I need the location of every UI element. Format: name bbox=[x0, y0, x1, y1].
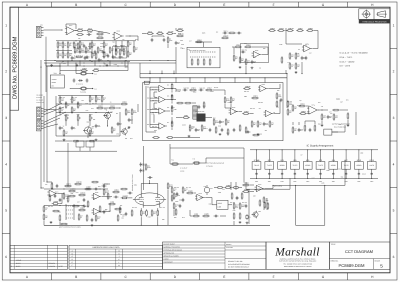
svg-text:470R: 470R bbox=[147, 167, 150, 169]
svg-text:6: 6 bbox=[5, 255, 7, 259]
svg-text:R39: R39 bbox=[181, 44, 184, 46]
svg-text:ISSUE: ISSUE bbox=[16, 259, 22, 262]
svg-text:R66 22k: R66 22k bbox=[258, 102, 263, 104]
svg-text:IC7: IC7 bbox=[167, 122, 169, 124]
svg-text:R55: R55 bbox=[63, 63, 66, 65]
svg-text:E: E bbox=[223, 3, 225, 7]
svg-text:R47: R47 bbox=[103, 66, 106, 68]
svg-text:LM-50k: LM-50k bbox=[180, 170, 185, 172]
svg-text:68n: 68n bbox=[329, 117, 332, 119]
svg-text:R47: R47 bbox=[108, 198, 111, 200]
svg-text:IC5: IC5 bbox=[167, 95, 169, 97]
svg-text:TH4: TH4 bbox=[193, 159, 196, 161]
svg-text:10n: 10n bbox=[86, 58, 89, 60]
svg-text:330k: 330k bbox=[321, 182, 324, 184]
svg-text:330k: 330k bbox=[279, 44, 282, 46]
svg-text:22n: 22n bbox=[61, 128, 64, 130]
svg-text:5: 5 bbox=[11, 265, 12, 268]
svg-text:100k: 100k bbox=[154, 130, 157, 132]
svg-text:68k: 68k bbox=[93, 119, 96, 121]
svg-text:C87: C87 bbox=[76, 192, 79, 194]
svg-text:330k: 330k bbox=[236, 198, 239, 200]
svg-text:C86: C86 bbox=[157, 203, 160, 205]
svg-text:R14 10k: R14 10k bbox=[70, 43, 75, 45]
svg-text:100n: 100n bbox=[345, 181, 348, 183]
svg-text:CLn: CLn bbox=[94, 88, 97, 90]
svg-text:TL072: TL072 bbox=[318, 164, 323, 167]
svg-text:100n: 100n bbox=[293, 181, 296, 183]
svg-text:C52: C52 bbox=[338, 169, 341, 171]
svg-text:470R: 470R bbox=[218, 192, 221, 194]
svg-text:R88: R88 bbox=[162, 219, 165, 221]
svg-text:R103: R103 bbox=[125, 67, 129, 69]
svg-text:68n: 68n bbox=[78, 38, 81, 40]
svg-text:Marshall: Marshall bbox=[274, 246, 320, 258]
svg-text:100n: 100n bbox=[203, 106, 206, 108]
svg-text:UNPROCESSED HOLE DATA: UNPROCESSED HOLE DATA bbox=[92, 246, 120, 249]
svg-text:2k2: 2k2 bbox=[216, 31, 218, 33]
svg-text:470R: 470R bbox=[72, 189, 75, 191]
svg-text:+: + bbox=[266, 115, 267, 117]
svg-text:+: + bbox=[231, 113, 232, 115]
svg-text:100k: 100k bbox=[211, 91, 214, 93]
svg-text:R117: R117 bbox=[247, 189, 250, 191]
svg-text:ISSUE: ISSUE bbox=[375, 260, 381, 263]
svg-text:220n: 220n bbox=[257, 188, 260, 190]
svg-text:TL072: TL072 bbox=[293, 164, 298, 167]
svg-text:R35: R35 bbox=[147, 109, 150, 111]
svg-text:R54: R54 bbox=[94, 198, 97, 200]
svg-text:RT1: RT1 bbox=[52, 85, 55, 87]
svg-text:C22 22n: C22 22n bbox=[200, 87, 206, 89]
svg-text:68n: 68n bbox=[103, 52, 106, 54]
svg-text:2k2: 2k2 bbox=[122, 39, 124, 41]
svg-text:C21: C21 bbox=[66, 198, 69, 200]
svg-text:470R: 470R bbox=[78, 182, 81, 184]
svg-text:R4: R4 bbox=[298, 49, 300, 51]
svg-text:56k: 56k bbox=[341, 177, 344, 179]
svg-text:1u: 1u bbox=[105, 210, 107, 212]
svg-text:4k7: 4k7 bbox=[259, 108, 261, 110]
svg-text:C15 47p: C15 47p bbox=[242, 49, 248, 51]
svg-text:C27 10n: C27 10n bbox=[103, 183, 109, 185]
svg-text:MID: MID bbox=[77, 114, 80, 116]
svg-text:TITLE: TITLE bbox=[331, 243, 337, 246]
svg-text:4n7: 4n7 bbox=[100, 60, 103, 62]
svg-text:C67: C67 bbox=[70, 53, 73, 55]
svg-text:22k: 22k bbox=[106, 117, 109, 119]
svg-text:4n7: 4n7 bbox=[244, 61, 247, 63]
svg-text:2: 2 bbox=[393, 70, 395, 74]
svg-text:+: + bbox=[114, 38, 115, 40]
svg-text:1: 1 bbox=[393, 23, 395, 27]
svg-text:R7: R7 bbox=[301, 154, 303, 156]
svg-text:22k: 22k bbox=[222, 189, 225, 191]
svg-text:IC3,5,7 -- 4558D: IC3,5,7 -- 4558D bbox=[340, 60, 355, 63]
svg-text:R105: R105 bbox=[202, 33, 206, 35]
svg-text:SPARE: SPARE bbox=[52, 82, 57, 84]
svg-text:C21: C21 bbox=[88, 30, 91, 32]
svg-text:C34: C34 bbox=[309, 53, 312, 55]
svg-text:R82: R82 bbox=[87, 122, 90, 124]
svg-text:+: + bbox=[260, 90, 261, 92]
svg-text:220n: 220n bbox=[265, 124, 268, 126]
svg-text:R120: R120 bbox=[362, 173, 366, 175]
svg-text:4n7: 4n7 bbox=[130, 120, 133, 122]
svg-text:R69: R69 bbox=[277, 90, 280, 92]
svg-text:1u: 1u bbox=[110, 101, 112, 103]
svg-text:R44 10k: R44 10k bbox=[152, 89, 157, 91]
svg-text:470R: 470R bbox=[180, 34, 183, 36]
svg-text:R97 10k: R97 10k bbox=[92, 103, 97, 105]
svg-text:5: 5 bbox=[380, 264, 383, 269]
svg-text:R42: R42 bbox=[213, 118, 216, 120]
svg-text:R4: R4 bbox=[117, 52, 119, 54]
svg-text:DRAWN: DRAWN bbox=[226, 244, 231, 246]
svg-text:DWG.No. PC8689.DGM: DWG.No. PC8689.DGM bbox=[12, 36, 19, 99]
svg-text:LM78: LM78 bbox=[370, 164, 374, 167]
svg-text:10n: 10n bbox=[142, 171, 145, 173]
svg-text:R72: R72 bbox=[318, 102, 321, 104]
svg-text:R59 10k: R59 10k bbox=[60, 97, 65, 99]
svg-text:F: F bbox=[273, 275, 275, 279]
svg-text:R37 10k: R37 10k bbox=[230, 202, 235, 204]
svg-text:470R: 470R bbox=[290, 28, 293, 30]
svg-text:470R: 470R bbox=[133, 112, 136, 114]
svg-text:SK1: SK1 bbox=[40, 25, 43, 27]
svg-text:R77 10k: R77 10k bbox=[186, 187, 191, 189]
svg-text:R71 10k: R71 10k bbox=[160, 207, 165, 209]
svg-text:4558D: 4558D bbox=[280, 164, 286, 167]
svg-text:C11: C11 bbox=[244, 43, 247, 45]
svg-text:100n: 100n bbox=[255, 181, 258, 183]
svg-text:10k: 10k bbox=[122, 217, 125, 219]
svg-text:25/01/01: 25/01/01 bbox=[49, 262, 56, 265]
svg-text:R49: R49 bbox=[204, 186, 207, 188]
svg-text:10k: 10k bbox=[265, 130, 268, 132]
svg-text:R107: R107 bbox=[102, 56, 106, 58]
svg-text:56k: 56k bbox=[305, 44, 308, 46]
svg-text:1: 1 bbox=[5, 23, 7, 27]
svg-text:+: + bbox=[159, 101, 160, 103]
svg-text:R87: R87 bbox=[66, 34, 69, 36]
svg-text:Cheene +Vol: Cheene +Vol bbox=[36, 102, 44, 104]
svg-text:R34: R34 bbox=[130, 138, 133, 140]
svg-text:R105: R105 bbox=[182, 124, 186, 126]
svg-text:C75: C75 bbox=[138, 199, 141, 201]
svg-text:GREY CONTROL PCB FLYLEADS: GREY CONTROL PCB FLYLEADS bbox=[59, 227, 81, 229]
svg-text:TR3: TR3 bbox=[127, 128, 130, 130]
svg-text:C52: C52 bbox=[109, 210, 112, 212]
svg-text:E: E bbox=[223, 275, 225, 279]
svg-text:10k: 10k bbox=[59, 114, 62, 116]
svg-text:R30: R30 bbox=[72, 205, 75, 207]
svg-text:B1/21: B1/21 bbox=[16, 265, 20, 268]
svg-text:100k: 100k bbox=[226, 133, 229, 135]
svg-text:22n: 22n bbox=[119, 124, 122, 126]
svg-text:R29: R29 bbox=[218, 126, 221, 128]
svg-text:+: + bbox=[159, 127, 160, 129]
svg-text:100n: 100n bbox=[134, 184, 137, 186]
svg-text:10k: 10k bbox=[104, 63, 107, 65]
svg-text:GAIN: GAIN bbox=[113, 45, 116, 47]
svg-text:47p: 47p bbox=[299, 100, 302, 102]
svg-text:R73: R73 bbox=[182, 217, 185, 219]
svg-text:R49 10k: R49 10k bbox=[242, 202, 247, 204]
svg-text:B: B bbox=[75, 3, 77, 7]
svg-text:R7 10k: R7 10k bbox=[297, 105, 301, 107]
svg-text:PC8689.DGM: PC8689.DGM bbox=[338, 263, 365, 268]
svg-text:R68: R68 bbox=[180, 40, 183, 42]
svg-text:TH1 RA51: TH1 RA51 bbox=[80, 70, 86, 72]
svg-text:+: + bbox=[197, 199, 198, 201]
svg-text:10k: 10k bbox=[125, 138, 128, 140]
svg-text:100n: 100n bbox=[306, 181, 309, 183]
svg-text:IC6: IC6 bbox=[167, 107, 169, 109]
svg-text:+: + bbox=[94, 213, 95, 215]
svg-text:R48: R48 bbox=[233, 210, 236, 212]
svg-text:R3 10k: R3 10k bbox=[59, 43, 63, 45]
svg-text:L: L bbox=[119, 261, 120, 264]
svg-text:IC4: IC4 bbox=[167, 84, 169, 86]
svg-text:TH3: TH3 bbox=[171, 160, 174, 162]
svg-text:TREB: TREB bbox=[89, 114, 93, 116]
svg-text:In 40s PLOT: In 40s PLOT bbox=[180, 168, 187, 170]
svg-text:CELLERED: CELLERED bbox=[36, 94, 43, 96]
svg-text:100n: 100n bbox=[268, 181, 271, 183]
svg-text:+: + bbox=[67, 32, 68, 34]
svg-text:68n: 68n bbox=[177, 43, 180, 45]
svg-text:C80: C80 bbox=[174, 109, 177, 111]
svg-text:R117: R117 bbox=[148, 217, 151, 219]
svg-text:R37: R37 bbox=[147, 124, 150, 126]
svg-text:4: 4 bbox=[5, 162, 7, 166]
svg-text:R77: R77 bbox=[86, 110, 89, 112]
svg-text:IC5,4 -- TL071: IC5,4 -- TL071 bbox=[340, 56, 354, 59]
svg-text:C87: C87 bbox=[340, 102, 343, 104]
svg-text:IC1,2,&,13 -- TL072 / MC4558D: IC1,2,&,13 -- TL072 / MC4558D bbox=[340, 52, 369, 55]
svg-text:+: + bbox=[159, 112, 160, 114]
svg-text:R36: R36 bbox=[209, 204, 212, 206]
svg-text:R81 10k: R81 10k bbox=[64, 115, 69, 117]
svg-text:47k: 47k bbox=[254, 57, 257, 59]
svg-text:100k: 100k bbox=[177, 91, 180, 93]
svg-text:C66: C66 bbox=[338, 98, 341, 100]
svg-text:R81 10k: R81 10k bbox=[152, 126, 157, 128]
svg-text:CLn: CLn bbox=[94, 73, 97, 75]
svg-text:C54: C54 bbox=[77, 201, 80, 203]
svg-text:R65 10k: R65 10k bbox=[174, 187, 179, 189]
svg-text:100n: 100n bbox=[332, 181, 335, 183]
svg-text:1u: 1u bbox=[63, 125, 65, 127]
svg-text:47p: 47p bbox=[73, 58, 76, 60]
svg-text:68n: 68n bbox=[59, 211, 62, 213]
svg-text:10n: 10n bbox=[114, 57, 117, 59]
svg-text:B1/03: B1/03 bbox=[16, 262, 20, 265]
svg-text:4558D: 4558D bbox=[356, 164, 362, 167]
svg-text:2: 2 bbox=[5, 70, 7, 74]
svg-text:470R: 470R bbox=[226, 100, 229, 102]
svg-text:R92 10k: R92 10k bbox=[287, 101, 292, 103]
svg-text:R39: R39 bbox=[318, 124, 321, 126]
svg-text:4k7: 4k7 bbox=[245, 96, 247, 98]
svg-text:C41: C41 bbox=[70, 99, 73, 101]
svg-text:C80: C80 bbox=[297, 53, 300, 55]
svg-text:R32: R32 bbox=[260, 134, 263, 136]
svg-text:R44: R44 bbox=[205, 128, 208, 130]
svg-text:R111: R111 bbox=[100, 50, 103, 52]
svg-text:R119: R119 bbox=[172, 197, 175, 199]
svg-text:C17: C17 bbox=[189, 40, 192, 42]
svg-text:R44: R44 bbox=[91, 108, 94, 110]
svg-text:C34: C34 bbox=[236, 207, 239, 209]
svg-text:C61: C61 bbox=[45, 184, 48, 186]
svg-text:R111: R111 bbox=[228, 102, 231, 104]
svg-text:10k: 10k bbox=[82, 100, 85, 102]
svg-text:470R: 470R bbox=[326, 170, 329, 172]
svg-text:5: 5 bbox=[5, 209, 7, 213]
svg-text:04/10/00: 04/10/00 bbox=[49, 265, 56, 268]
svg-text:R65: R65 bbox=[92, 53, 95, 55]
svg-text:4n7: 4n7 bbox=[221, 122, 224, 124]
svg-text:3: 3 bbox=[5, 116, 7, 120]
svg-text:TR5: TR5 bbox=[258, 211, 261, 213]
svg-text:C24: C24 bbox=[178, 195, 181, 197]
svg-text:IC8 -- LM78: IC8 -- LM78 bbox=[340, 65, 351, 68]
svg-text:470R: 470R bbox=[175, 201, 178, 203]
svg-text:R31: R31 bbox=[147, 86, 150, 88]
svg-text:C70: C70 bbox=[210, 188, 213, 190]
svg-text:4k7: 4k7 bbox=[189, 127, 191, 129]
svg-text:330k: 330k bbox=[100, 43, 103, 45]
svg-text:CHECKED: CHECKED bbox=[226, 247, 233, 249]
svg-text:R102: R102 bbox=[193, 92, 197, 94]
svg-text:R57 10k: R57 10k bbox=[48, 206, 53, 208]
svg-text:R5 10k: R5 10k bbox=[214, 87, 218, 89]
svg-text:R39 10k: R39 10k bbox=[244, 91, 249, 93]
svg-text:47k: 47k bbox=[287, 62, 290, 64]
svg-text:R39: R39 bbox=[91, 127, 94, 129]
svg-text:220n: 220n bbox=[142, 165, 145, 167]
svg-text:4558D: 4558D bbox=[305, 164, 311, 167]
svg-text:R78: R78 bbox=[98, 186, 101, 188]
svg-text:R67 10k: R67 10k bbox=[120, 45, 125, 47]
svg-text:R41: R41 bbox=[182, 48, 185, 50]
svg-text:C21 68n: C21 68n bbox=[184, 87, 190, 89]
svg-text:100k: 100k bbox=[338, 124, 341, 126]
svg-text:C2 4n7: C2 4n7 bbox=[88, 32, 93, 34]
svg-text:R114: R114 bbox=[55, 191, 58, 193]
svg-text:TH2 RA51: TH2 RA51 bbox=[80, 92, 86, 94]
svg-text:330k: 330k bbox=[199, 197, 202, 199]
svg-text:220n: 220n bbox=[97, 126, 100, 128]
svg-text:R93 10k: R93 10k bbox=[84, 206, 89, 208]
svg-text:Drive PC8689 ISS5: Drive PC8689 ISS5 bbox=[334, 126, 346, 128]
svg-text:R62 10k: R62 10k bbox=[250, 108, 255, 110]
svg-text:R16: R16 bbox=[178, 33, 181, 35]
svg-text:4558D: 4558D bbox=[331, 164, 337, 167]
svg-text:C67: C67 bbox=[152, 108, 155, 110]
svg-text:C40: C40 bbox=[152, 114, 155, 116]
svg-text:+: + bbox=[304, 50, 305, 52]
svg-text:C14 1u: C14 1u bbox=[224, 30, 229, 32]
svg-text:4: 4 bbox=[393, 162, 395, 166]
svg-text:R71 10k: R71 10k bbox=[72, 97, 77, 99]
svg-text:THIRD ANGLE PROJECTION: THIRD ANGLE PROJECTION bbox=[362, 20, 387, 23]
svg-text:IC Supply Arrangement: IC Supply Arrangement bbox=[307, 145, 334, 148]
svg-text:F: F bbox=[273, 3, 275, 7]
svg-text:6: 6 bbox=[393, 255, 395, 259]
svg-text:100n: 100n bbox=[281, 181, 284, 183]
svg-text:C44: C44 bbox=[329, 111, 332, 113]
svg-text:R55 10k: R55 10k bbox=[152, 100, 157, 102]
svg-text:2k2: 2k2 bbox=[123, 51, 125, 53]
svg-text:R103: R103 bbox=[114, 64, 118, 66]
svg-text:TL072: TL072 bbox=[267, 164, 272, 167]
svg-text:R36 10k: R36 10k bbox=[88, 46, 93, 48]
svg-text:R48 10k: R48 10k bbox=[100, 46, 105, 48]
svg-text:68k: 68k bbox=[113, 41, 116, 43]
svg-text:68n: 68n bbox=[197, 130, 200, 132]
svg-text:+: + bbox=[159, 90, 160, 92]
svg-text:R97: R97 bbox=[122, 216, 125, 218]
svg-text:R117: R117 bbox=[234, 111, 237, 113]
svg-text:47k: 47k bbox=[321, 106, 324, 108]
svg-text:C22: C22 bbox=[187, 49, 190, 51]
svg-text:5: 5 bbox=[393, 209, 395, 213]
svg-text:R43 10k: R43 10k bbox=[132, 207, 137, 209]
svg-text:78L15: 78L15 bbox=[254, 164, 259, 167]
svg-text:MASTER VOL: MASTER VOL bbox=[196, 111, 205, 113]
svg-text:3: 3 bbox=[393, 116, 395, 120]
svg-text:R73: R73 bbox=[346, 99, 349, 101]
svg-text:R16: R16 bbox=[263, 48, 266, 50]
svg-text:R89: R89 bbox=[100, 211, 103, 213]
svg-text:22u: 22u bbox=[248, 216, 250, 218]
svg-text:4700/35: 4700/35 bbox=[52, 79, 57, 81]
svg-text:68n: 68n bbox=[253, 62, 256, 64]
svg-text:470R: 470R bbox=[215, 122, 218, 124]
svg-text:Grn /Num/S: Grn /Num/S bbox=[36, 100, 43, 102]
svg-text:100n: 100n bbox=[357, 181, 360, 183]
svg-text:68n: 68n bbox=[120, 205, 123, 207]
svg-text:R3: R3 bbox=[259, 68, 261, 70]
svg-text:IC14B: IC14B bbox=[254, 159, 260, 162]
svg-text:R33: R33 bbox=[147, 97, 150, 99]
svg-text:R91: R91 bbox=[71, 193, 74, 195]
svg-text:R94: R94 bbox=[253, 196, 256, 198]
svg-text:4n7: 4n7 bbox=[300, 130, 303, 132]
svg-text:47p: 47p bbox=[121, 57, 124, 59]
svg-text:47p: 47p bbox=[276, 107, 279, 109]
svg-text:R79: R79 bbox=[116, 134, 119, 136]
svg-text:D4 1N4148: D4 1N4148 bbox=[76, 84, 83, 86]
svg-text:R35: R35 bbox=[174, 217, 177, 219]
svg-text:47p: 47p bbox=[73, 128, 76, 130]
svg-text:B: B bbox=[75, 275, 77, 279]
svg-text:100k: 100k bbox=[360, 152, 363, 154]
svg-text:C14: C14 bbox=[312, 178, 315, 180]
svg-text:TL072: TL072 bbox=[344, 164, 349, 167]
svg-text:100n: 100n bbox=[370, 181, 373, 183]
svg-text:47k: 47k bbox=[172, 107, 175, 109]
svg-text:Dir Board: Dir Board bbox=[36, 97, 42, 99]
svg-text:R68: R68 bbox=[179, 200, 182, 202]
svg-text:CCT DIAGRAM: CCT DIAGRAM bbox=[345, 249, 373, 254]
svg-text:R80: R80 bbox=[192, 126, 195, 128]
svg-text:F: F bbox=[72, 264, 73, 267]
svg-text:R62: R62 bbox=[135, 39, 138, 41]
